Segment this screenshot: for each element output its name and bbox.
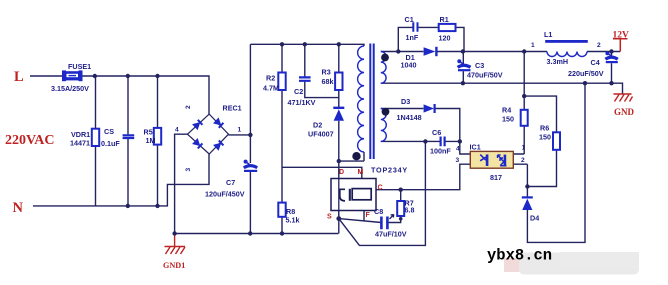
svg-text:2: 2 [521, 157, 525, 164]
svg-text:0.1uF: 0.1uF [101, 139, 120, 148]
svg-text:GND: GND [614, 107, 635, 117]
svg-text:D: D [339, 169, 344, 176]
svg-text:1: 1 [238, 127, 242, 134]
svg-text:1: 1 [531, 42, 535, 49]
svg-text:FUSE1: FUSE1 [68, 62, 91, 71]
svg-text:C3: C3 [475, 61, 484, 70]
svg-text:68k: 68k [322, 77, 334, 86]
svg-text:R2: R2 [266, 74, 275, 83]
svg-text:CS: CS [104, 127, 114, 136]
svg-text:C2: C2 [294, 87, 303, 96]
svg-text:6.8: 6.8 [405, 206, 415, 215]
svg-text:S: S [327, 213, 332, 220]
svg-text:1040: 1040 [401, 61, 417, 70]
svg-text:4: 4 [456, 145, 460, 152]
svg-text:1M: 1M [146, 136, 156, 145]
svg-text:150: 150 [502, 115, 514, 124]
svg-text:R6: R6 [540, 124, 549, 133]
svg-text:5.1k: 5.1k [286, 216, 300, 225]
svg-text:220VAC: 220VAC [5, 133, 55, 148]
svg-text:3: 3 [456, 157, 460, 164]
svg-text:REC1: REC1 [223, 104, 242, 113]
svg-text:ybx8.cn: ybx8.cn [487, 247, 552, 265]
svg-text:14471: 14471 [70, 139, 90, 148]
svg-text:C: C [378, 185, 383, 192]
svg-text:1N4148: 1N4148 [397, 113, 422, 122]
svg-text:100nF: 100nF [430, 147, 451, 156]
svg-text:L1: L1 [544, 30, 552, 39]
svg-text:C7: C7 [226, 178, 235, 187]
svg-text:C4: C4 [591, 58, 600, 67]
svg-text:F: F [366, 212, 371, 219]
svg-text:4.7M: 4.7M [263, 84, 279, 93]
svg-text:220uF/50V: 220uF/50V [568, 69, 604, 78]
svg-text:D2: D2 [313, 121, 322, 130]
svg-text:R1: R1 [440, 15, 449, 24]
svg-text:D4: D4 [530, 214, 539, 223]
svg-text:C1: C1 [405, 15, 414, 24]
svg-text:3.3mH: 3.3mH [547, 57, 569, 66]
svg-text:150: 150 [539, 133, 551, 142]
svg-text:12V: 12V [613, 30, 630, 40]
svg-text:2: 2 [185, 105, 192, 109]
svg-text:3: 3 [185, 168, 192, 172]
svg-text:1nF: 1nF [406, 33, 419, 42]
svg-text:C8: C8 [374, 207, 383, 216]
svg-text:L: L [14, 69, 24, 85]
svg-text:1: 1 [522, 144, 526, 151]
svg-text:D3: D3 [401, 97, 410, 106]
svg-text:4: 4 [175, 127, 179, 134]
svg-text:R3: R3 [322, 68, 331, 77]
svg-text:120: 120 [439, 34, 451, 43]
svg-text:2: 2 [597, 42, 601, 49]
svg-text:47uF/10V: 47uF/10V [375, 230, 407, 239]
svg-text:GND1: GND1 [163, 261, 185, 270]
svg-text:TOP234Y: TOP234Y [371, 165, 408, 174]
svg-text:3.15A/250V: 3.15A/250V [51, 84, 89, 93]
svg-text:IC1: IC1 [470, 142, 481, 151]
svg-text:M: M [358, 169, 364, 176]
svg-text:UF4007: UF4007 [308, 130, 334, 139]
svg-text:N: N [13, 200, 24, 216]
svg-text:120uF/450V: 120uF/450V [205, 190, 245, 199]
svg-text:471/1KV: 471/1KV [288, 98, 316, 107]
svg-text:470uF/50V: 470uF/50V [467, 70, 503, 79]
svg-text:R4: R4 [502, 106, 511, 115]
svg-text:817: 817 [490, 173, 502, 182]
svg-text:C6: C6 [432, 128, 441, 137]
